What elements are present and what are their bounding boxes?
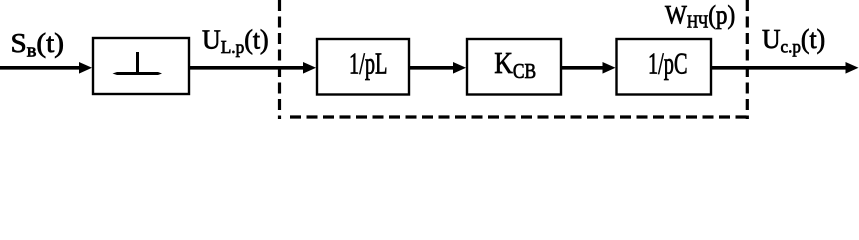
svg-text:UL.p(t): UL.p(t) <box>202 24 269 57</box>
svg-text:Sв(t): Sв(t) <box>11 29 64 61</box>
svg-text:1/pC: 1/pC <box>648 45 688 80</box>
svg-text:1/pL: 1/pL <box>349 45 388 80</box>
svg-text:Uс.р(t): Uс.р(t) <box>762 24 825 56</box>
svg-text:WНЧ(p): WНЧ(p) <box>665 1 735 31</box>
